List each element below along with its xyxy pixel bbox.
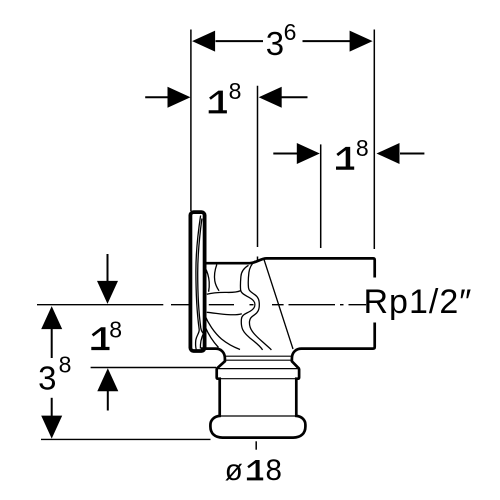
port thin line band bottom [217, 378, 299, 380]
dimension line 18 vertical lower reference (y=367.5) [91, 367, 216, 369]
arrow 18b right [400, 153, 424, 155]
wall plate inner arc 1 [196, 216, 201, 330]
port centerline vertical x=257.5 [257, 86, 259, 247]
extension line left (x=191) [190, 30, 192, 212]
label 18b : digit 1 [336, 147, 354, 170]
svg-text:Rp1/2″: Rp1/2″ [364, 283, 473, 321]
lower flare curve B [205, 327, 218, 348]
port thin line bead top [220, 415, 297, 417]
wall plate inner arc 2 [198, 219, 204, 334]
boss funnel top line [207, 291, 241, 295]
arrow 18a left [145, 96, 168, 98]
dimension line 36 [216, 40, 264, 42]
arrow v18 bottom (up) [107, 391, 109, 411]
label 18a : digit 1 drawn with base serif [209, 91, 227, 114]
elbow S-curve left [240, 265, 262, 350]
port thin line neck 2 [225, 359, 292, 361]
body outline [201, 258, 375, 437]
lower flare curve A [205, 316, 240, 350]
arrow 18b left [273, 153, 297, 155]
dia18 leader line [255, 441, 257, 449]
extension line right (x=374) [373, 30, 375, 250]
port thin line neck 1 [225, 355, 292, 357]
wall plate bottom hook 2 [200, 333, 203, 348]
svg-text:8: 8 [109, 316, 122, 342]
svg-text:8: 8 [229, 78, 242, 104]
label v18 : digit 1 [91, 327, 109, 350]
arrow 18a right [281, 96, 308, 98]
svg-text:8: 8 [266, 454, 282, 487]
svg-text:8: 8 [356, 135, 369, 161]
extension line x=320 [320, 144, 322, 248]
boss fillet curve B [205, 268, 209, 292]
svg-text:3: 3 [38, 359, 56, 396]
arrow v38 bottom (down) [51, 398, 53, 416]
arrow 36 right [350, 31, 373, 52]
svg-text:8: 8 [59, 352, 72, 378]
arrow 36 left [192, 31, 215, 52]
svg-text:6: 6 [284, 19, 297, 45]
wall plate bottom hook 1 [196, 330, 200, 350]
boss fillet curve A [214, 265, 219, 291]
boss funnel bottom line [207, 312, 242, 314]
bottom reference line (y=439.4) [41, 438, 211, 440]
elbow S-curve right [248, 261, 271, 350]
port thin line flare bottom [217, 368, 298, 370]
svg-text:3: 3 [266, 25, 284, 62]
arrow v18 top (down) [107, 254, 109, 282]
wall plate outline [190, 212, 204, 351]
elbow big diagonal [264, 260, 293, 350]
svg-text:ø: ø [225, 454, 243, 487]
arrow v38 top (up) [51, 329, 53, 358]
Rp1/2 text halo [366, 278, 475, 323]
horizontal centerline (dash-dot) [37, 304, 366, 306]
